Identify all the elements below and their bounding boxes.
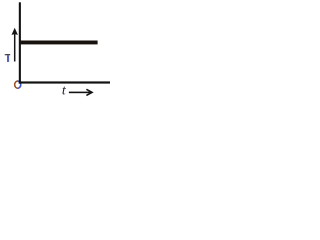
t axis arrow shaft [69, 92, 91, 94]
T axis direction arrow [12, 28, 18, 35]
svg-text:t: t [62, 84, 67, 99]
origin circle right arc (blue fringe) [18, 81, 21, 88]
y-axis (T axis line) [19, 2, 21, 83]
label T (top bar) [5, 54, 10, 55]
label T (bar left orange tip) [5, 54, 6, 55]
constant temperature line [20, 41, 98, 45]
T axis arrow shaft [14, 33, 16, 61]
origin open circle (left/bottom arc, orange-brown) [15, 81, 21, 88]
label T (stem red fringe) [6, 55, 9, 62]
label T (stem dark core) [7, 55, 10, 62]
label T (stem blue fringe) [7, 55, 10, 62]
t axis arrow head [86, 89, 92, 95]
x-axis (t axis line) [19, 81, 110, 83]
